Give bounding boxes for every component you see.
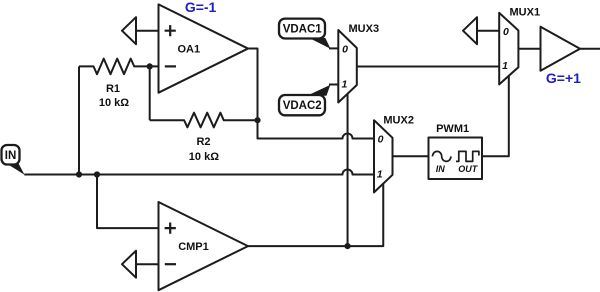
wire OA1 + input from ground xyxy=(136,30,159,32)
svg-text:OA1: OA1 xyxy=(178,43,201,55)
wire CMP1 - input from ground xyxy=(136,263,159,265)
svg-text:R2: R2 xyxy=(196,136,210,148)
junction node IN/CMP1 branch xyxy=(94,171,100,177)
wire OA1 output to MUX2 input 0 (hop over MUX3 select) xyxy=(248,49,374,139)
node tag IN box xyxy=(2,145,20,165)
wire CMP1 output to MUX2 select xyxy=(248,184,383,247)
svg-text:OUT: OUT xyxy=(458,164,479,174)
wire MUX3 output to MUX1 input 1 xyxy=(357,66,499,68)
wire PWM1 output to MUX1 select xyxy=(482,76,509,156)
wire VDAC1 stub to MUX3 input 0 xyxy=(329,47,338,49)
wire MUX1 input 0 from ground xyxy=(477,30,499,32)
svg-text:VDAC2: VDAC2 xyxy=(283,100,322,112)
svg-text:G=+1: G=+1 xyxy=(546,70,581,86)
svg-text:R1: R1 xyxy=(106,83,120,95)
svg-text:10 kΩ: 10 kΩ xyxy=(99,97,129,109)
svg-text:MUX1: MUX1 xyxy=(510,7,541,19)
svg-text:10 kΩ: 10 kΩ xyxy=(189,151,219,163)
wire MUX3 select line xyxy=(347,94,349,246)
wire IN node to MUX2 input 1 (hop over MUX3 select) xyxy=(24,170,374,175)
svg-text:0: 0 xyxy=(503,26,509,38)
svg-text:CMP1: CMP1 xyxy=(178,241,209,253)
node tag IN pointer xyxy=(7,163,25,174)
svg-text:1: 1 xyxy=(341,79,347,91)
resistor R1 xyxy=(79,59,159,75)
node tag VDAC1 box xyxy=(279,19,325,39)
node tag VDAC2 pointer xyxy=(307,85,330,96)
ground symbol at MUX1 input 0 xyxy=(463,17,477,44)
node tag VDAC1 pointer xyxy=(309,38,331,49)
svg-text:1: 1 xyxy=(377,169,383,181)
svg-text:0: 0 xyxy=(378,134,384,146)
svg-text:IN: IN xyxy=(5,150,17,162)
PWM1 sine symbol xyxy=(433,151,451,161)
wire MUX2 output to PWM1 input xyxy=(393,155,429,157)
svg-text:MUX2: MUX2 xyxy=(383,115,414,127)
resistor R2 xyxy=(150,113,258,128)
node tag VDAC2 box xyxy=(279,95,325,115)
PWM1 square wave symbol xyxy=(456,151,479,161)
wire VDAC2 stub to MUX3 input 1 xyxy=(329,84,338,86)
svg-text:0: 0 xyxy=(342,43,348,55)
junction node IN/R1 branch xyxy=(76,171,82,177)
svg-text:1: 1 xyxy=(502,60,508,72)
PWM block PWM1 box xyxy=(429,138,483,180)
mux MUX2 body xyxy=(374,120,393,192)
wire MUX1 output to buffer xyxy=(518,48,540,50)
op-amp OA1 triangle xyxy=(159,4,249,92)
wire feedback vertical from OA1 inverting input to R2 xyxy=(149,66,151,120)
wire CMP1 + input branch xyxy=(97,175,159,229)
junction node at R1/OA1 inverting input xyxy=(147,63,153,69)
mux MUX1 body xyxy=(499,13,518,85)
svg-text:VDAC1: VDAC1 xyxy=(283,24,323,36)
junction node CMP1 output/MUX3 select xyxy=(344,243,350,249)
comparator CMP1 triangle xyxy=(159,202,249,290)
svg-text:G=-1: G=-1 xyxy=(185,0,217,15)
wire R1 left branch vertical xyxy=(78,66,80,174)
mux MUX3 body xyxy=(338,30,357,103)
svg-text:PWM1: PWM1 xyxy=(436,123,469,135)
ground symbol at OA1 + input xyxy=(122,17,136,44)
svg-text:IN: IN xyxy=(436,164,446,174)
junction node at R2/OA1 output xyxy=(254,117,260,123)
ground symbol at CMP1 - input xyxy=(122,251,136,278)
buffer amplifier triangle (G=+1) xyxy=(541,27,581,71)
svg-text:MUX3: MUX3 xyxy=(349,23,380,35)
wire buffer output xyxy=(580,48,600,50)
